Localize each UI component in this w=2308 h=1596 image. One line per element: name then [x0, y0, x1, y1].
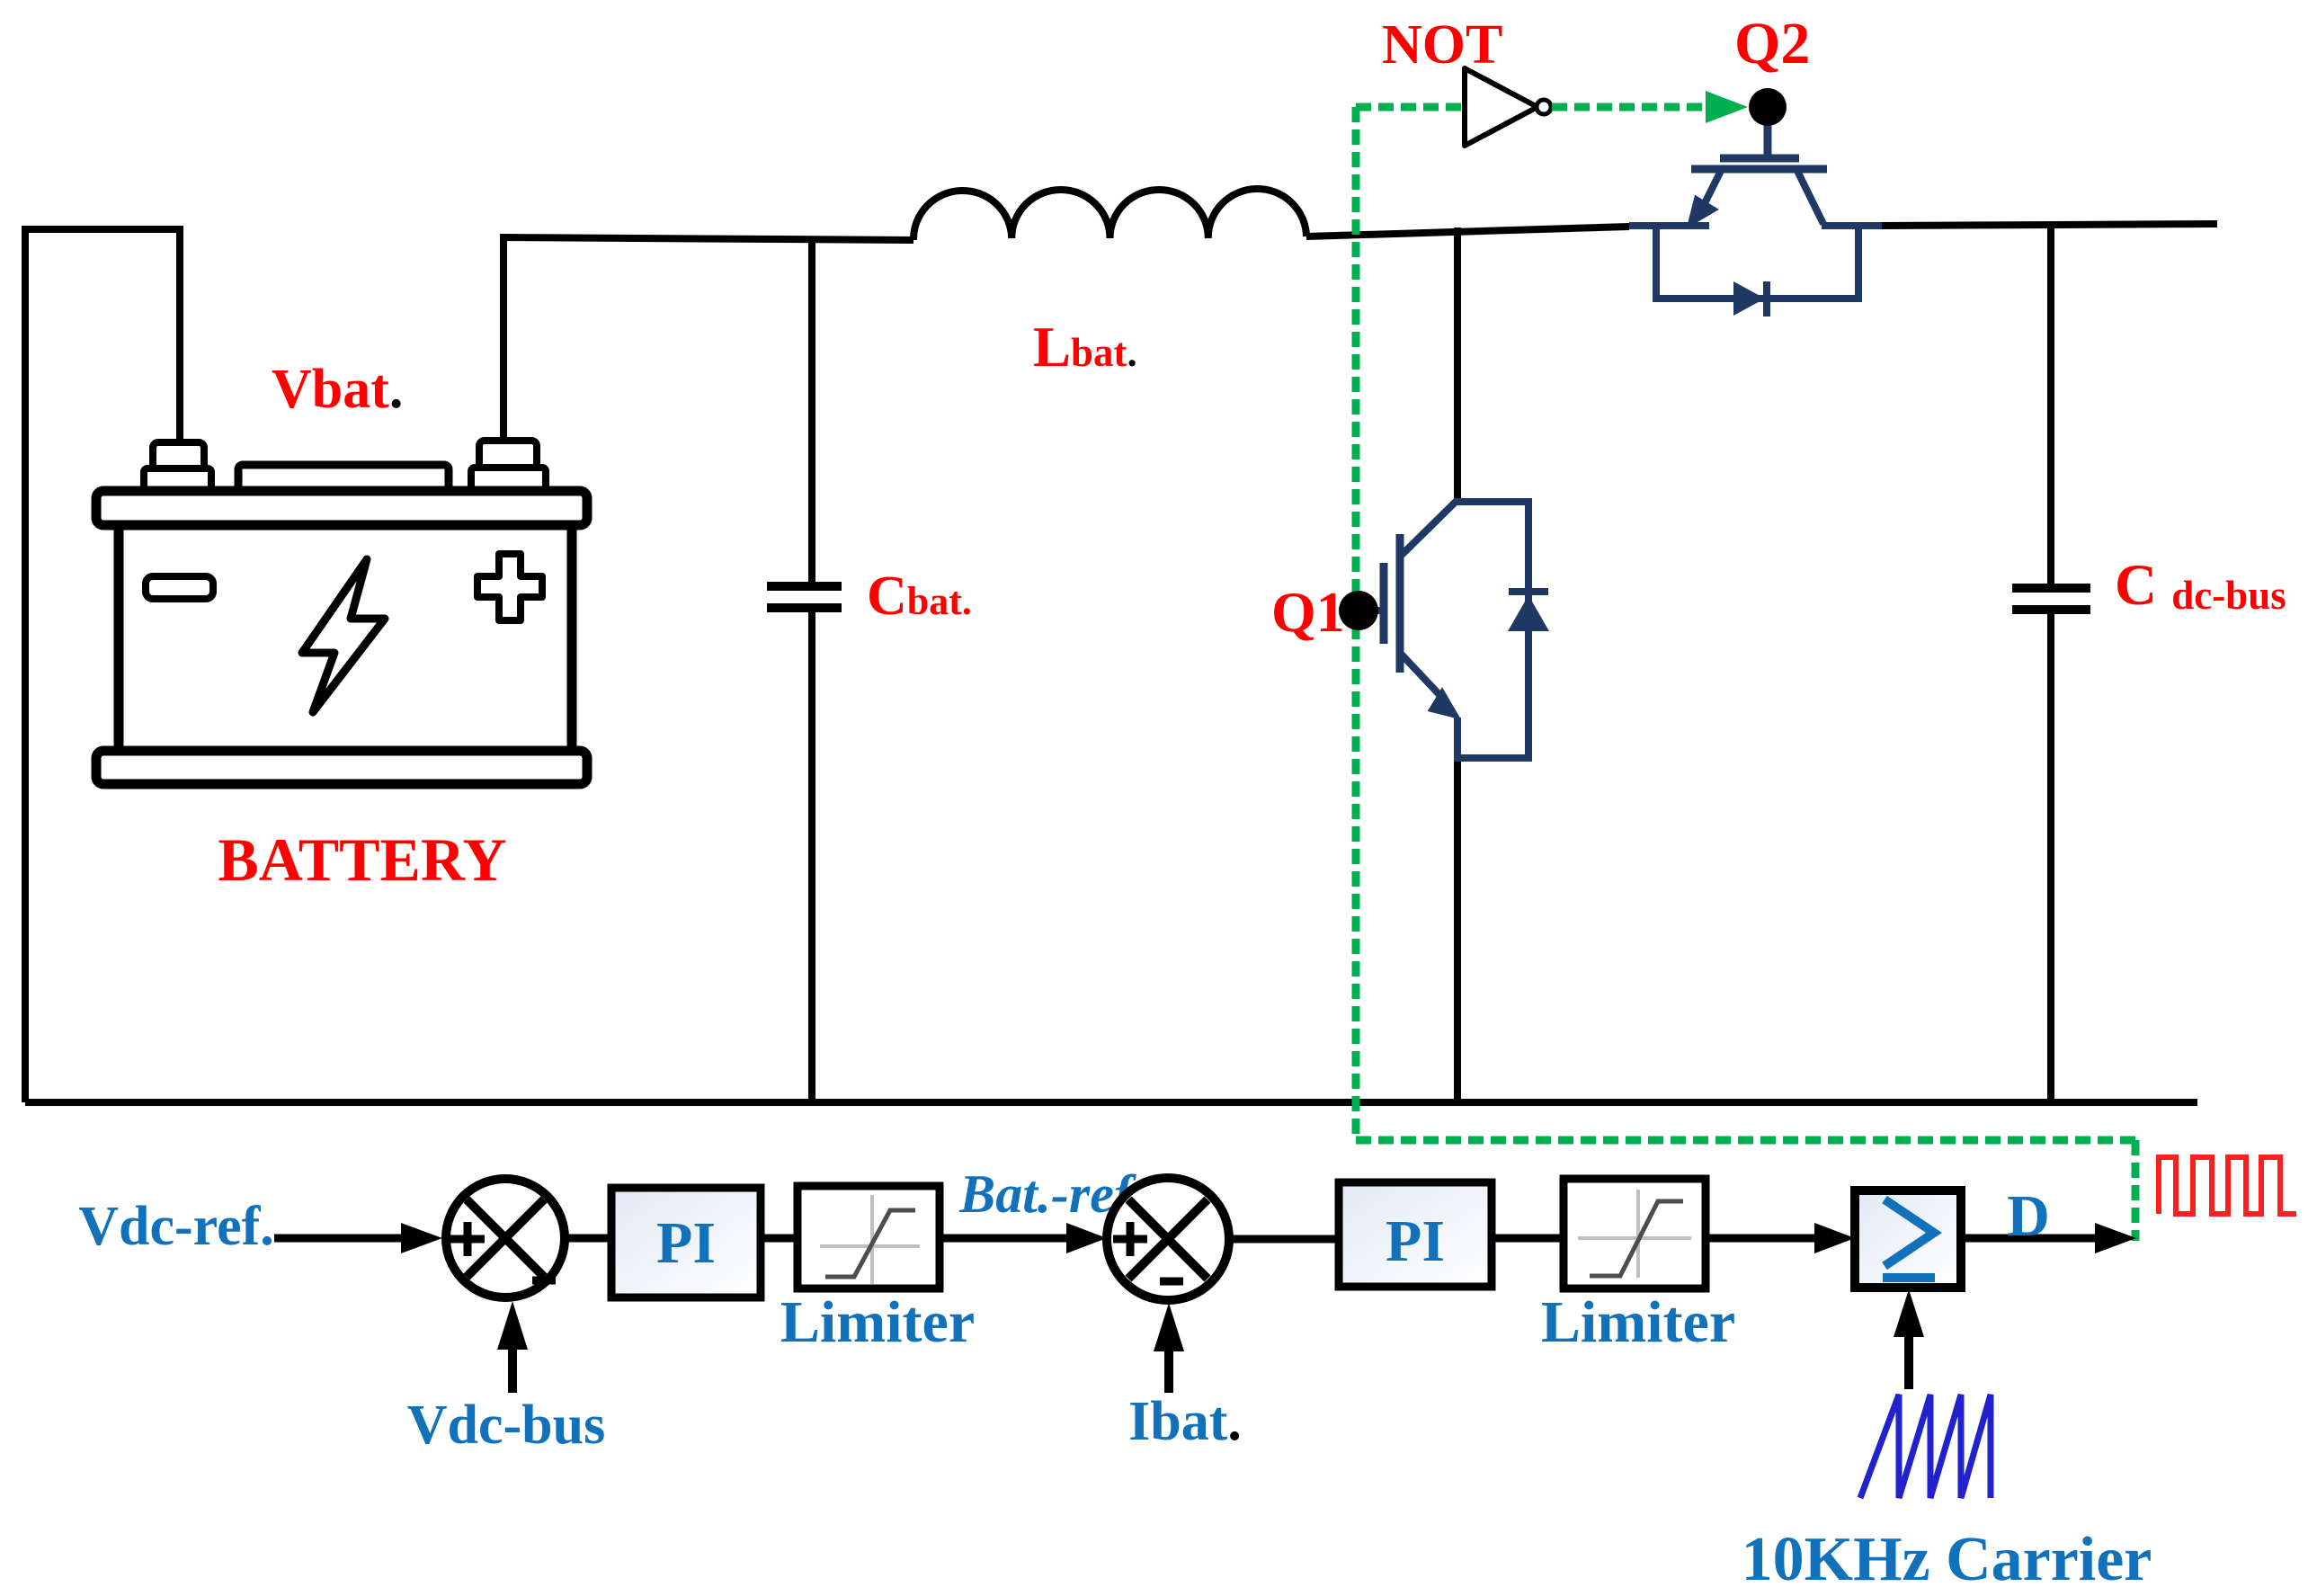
summing junction S2 [1107, 1178, 1229, 1300]
battery positive terminal [471, 441, 546, 490]
wire summer 2 to PI 2 [1231, 1235, 1339, 1244]
block limiter 1 (saturation) [798, 1186, 940, 1288]
svg-text:C dc-bus: C dc-bus [2115, 553, 2286, 618]
label Q1 [1271, 580, 1345, 644]
label 10KHz Carrier [1742, 1525, 2152, 1594]
svg-text:Q1: Q1 [1271, 580, 1345, 644]
svg-text:10KHz Carrier: 10KHz Carrier [1742, 1525, 2152, 1594]
battery top cover [96, 491, 587, 525]
svg-text:Vbat.: Vbat. [272, 359, 403, 420]
battery plus mark [477, 554, 542, 620]
wire Q1 emitter to bottom bus [1454, 758, 1461, 1102]
label Lbat. [1033, 316, 1137, 379]
NOT gate [1465, 68, 1551, 146]
gate drive net green dashed bottom horizontal [1356, 1137, 2135, 1145]
PWM square wave [2159, 1157, 2296, 1214]
block comparator (PWM >=) [1855, 1190, 1961, 1288]
wire PI 1 to limiter 1 [761, 1235, 798, 1243]
label Limiter 2 [1541, 1289, 1735, 1355]
label C dc-bus [2115, 553, 2286, 618]
battery minus mark [146, 576, 213, 599]
wire Ibat input arrow [1154, 1303, 1184, 1393]
wire Vdc-bus input arrow [497, 1301, 528, 1393]
block limiter 2 (saturation) [1564, 1179, 1706, 1288]
svg-text:PI: PI [656, 1210, 716, 1276]
label D [2007, 1183, 2050, 1249]
block PI 2 [1339, 1182, 1492, 1287]
transistor Q2 (IGBT, rotated) [1629, 124, 1882, 226]
summing junction S1 [446, 1179, 565, 1297]
node Q2 gate dot [1749, 88, 1787, 126]
svg-text:Cbat.: Cbat. [867, 566, 972, 627]
wire PI 2 to limiter 2 [1492, 1235, 1564, 1243]
capacitor Cbat [767, 240, 842, 1102]
battery lightning bolt [302, 559, 385, 712]
wire Vdc-ref to summer 1 with arrow [274, 1223, 442, 1253]
gate drive net green dashed NOT output to Q2 [1552, 91, 1748, 123]
wire D output arrow [1961, 1223, 2136, 1253]
svg-text:Q2: Q2 [1734, 11, 1810, 76]
label Vdc-bus [407, 1395, 606, 1456]
wire Q2 collector to top right bus end [1882, 224, 2217, 226]
wire battery positive to inductor [503, 237, 913, 450]
svg-text:Vdc-ref.: Vdc-ref. [78, 1196, 273, 1257]
svg-text:BATTERY: BATTERY [218, 825, 506, 894]
label Vdc-ref. [78, 1196, 273, 1257]
gate drive net green dashed right vertical to D [2132, 1140, 2140, 1241]
svg-text:D: D [2007, 1183, 2050, 1249]
wire carrier input arrow to comparator [1894, 1289, 1924, 1389]
wire inductor to Q2 emitter rail [1306, 227, 1629, 236]
label BATTERY [218, 825, 506, 894]
capacitor C dc-bus [2012, 225, 2090, 1102]
label Bat.-ref [958, 1164, 1136, 1224]
battery body [119, 525, 572, 751]
svg-text:PI: PI [1386, 1208, 1445, 1274]
label Cbat. [867, 566, 972, 627]
svg-text:Ibat.: Ibat. [1128, 1391, 1242, 1452]
svg-text:Lbat.: Lbat. [1033, 316, 1137, 379]
wire summer 1 to PI 1 [565, 1235, 611, 1243]
wire limiter 2 to comparator with arrow [1706, 1223, 1855, 1253]
label Q2 [1734, 11, 1810, 76]
battery base [96, 751, 587, 784]
transistor Q1 (IGBT) [1359, 500, 1458, 760]
label Vbat. [272, 359, 403, 420]
label NOT [1382, 14, 1502, 76]
gate drive net green dashed to NOT input [1356, 103, 1465, 111]
wire Q1 collector drop [1454, 227, 1461, 502]
svg-text:Limiter: Limiter [780, 1289, 975, 1355]
diode of Q1 [1454, 502, 1549, 758]
block PI 1 [611, 1188, 761, 1297]
label Limiter 1 [780, 1289, 975, 1355]
label Ibat. [1128, 1391, 1242, 1452]
battery handle [238, 465, 449, 492]
wire bottom bus [25, 1099, 2197, 1106]
wire limiter 1 to summer 2 with arrow [940, 1223, 1107, 1253]
svg-text:Limiter: Limiter [1541, 1289, 1735, 1355]
wire left loop from battery negative up and down to bottom bus [25, 229, 180, 1102]
carrier sawtooth waveform [1860, 1395, 1991, 1498]
svg-text:Vdc-bus: Vdc-bus [407, 1395, 606, 1456]
inductor Lbat [913, 189, 1306, 240]
node Q1 gate dot [1339, 591, 1378, 630]
svg-text:NOT: NOT [1382, 14, 1502, 76]
gate drive net green dashed vertical [1352, 107, 1360, 1140]
diode of Q2 [1656, 222, 1858, 317]
battery negative terminal [144, 442, 211, 491]
